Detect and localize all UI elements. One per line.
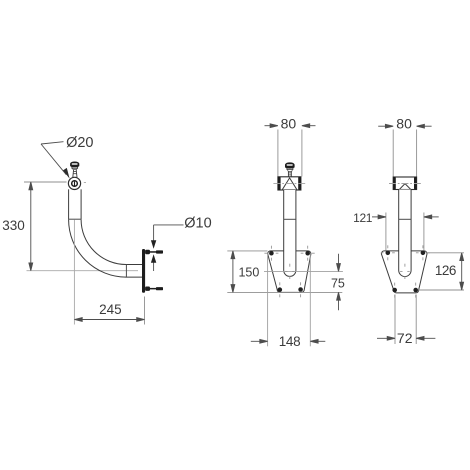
bolt head (dark band with slot) [70, 162, 79, 168]
top ring outer circle (Ø20) [68, 177, 80, 189]
clamp bolt head (dark band with slot) [285, 162, 295, 168]
svg-text:Ø10: Ø10 [184, 215, 211, 231]
label Ø10 leader arrowhead (down) [151, 240, 156, 249]
dimension 121 extension lines [385, 213, 387, 251]
dimension 150 dimension line with arrows [231, 251, 235, 293]
horizontal tube joint line [125, 265, 127, 278]
dimension 72 arrows [377, 336, 435, 340]
label Ø10 leader [154, 225, 184, 243]
dimension 80 (right) arrows [378, 124, 431, 128]
clamp block centerline (right view) [389, 183, 421, 185]
dimension 75 down arrow [337, 254, 341, 310]
dimension 126 dimension line with arrows [460, 253, 464, 290]
label Ø20 leader arrowhead [63, 168, 70, 179]
top ring inner ring [72, 181, 78, 187]
tube (middle view) over plate [284, 190, 296, 276]
wall plate (right view, trapezoid) [381, 251, 427, 293]
clamp block right end bar [414, 177, 417, 190]
dimension 148 arrows [251, 339, 325, 343]
bolt on top of ring: threaded shaft [73, 170, 77, 178]
label Ø20 leader [41, 142, 66, 175]
vertical tube wall left [68, 189, 70, 219]
svg-text:75: 75 [331, 277, 345, 291]
hole top-left [269, 251, 274, 256]
clamp block right end bar [298, 177, 301, 190]
tube joint line [69, 218, 82, 220]
hole top-left (right view) [386, 251, 391, 256]
svg-text:126: 126 [435, 263, 456, 278]
svg-text:80: 80 [396, 116, 412, 132]
dimension 330 dimension line with arrows [29, 182, 33, 271]
hole bottom-right (right view) [413, 288, 418, 293]
plate holes (middle view) with center ticks [264, 246, 314, 298]
dimension 80 (middle) extension lines [277, 130, 279, 177]
clamp block (right view) [393, 177, 416, 190]
svg-text:Ø20: Ø20 [66, 135, 93, 151]
dimension 80 (middle) arrows [265, 124, 316, 128]
dimension 121 arrows [372, 215, 439, 219]
horizontal tube bottom wall [126, 276, 142, 278]
dimension 80 (right) extension lines [392, 130, 394, 177]
horizontal tube top wall [126, 264, 142, 266]
dimension 330 top extension line [24, 181, 67, 183]
plate holes (right view) with center ticks [381, 245, 430, 297]
dimension 245 left extension line (tube centerline) [73, 220, 75, 325]
svg-text:150: 150 [238, 266, 259, 280]
svg-text:121: 121 [353, 211, 373, 225]
top wall bolt (side view) [145, 250, 163, 254]
hole bottom-left (right view) [392, 288, 397, 293]
centerline tick right of ring [84, 182, 86, 184]
dimension 126 bottom extension line [418, 289, 464, 291]
dimension 150/75 bottom extension line [227, 291, 342, 293]
dimension 245 dimension line with arrows [74, 318, 144, 322]
bend inner curve [81, 220, 126, 265]
tube joint line (middle view) [284, 218, 296, 220]
dimension 148 extension lines [267, 254, 269, 347]
clamp bolt neck collar [287, 167, 293, 170]
clamp V notch [282, 178, 297, 190]
Ø10 opposing arrow (up from below) [153, 258, 155, 271]
tube (right view) over plate [399, 190, 411, 277]
bottom wall bolt (side view) [145, 287, 163, 291]
hole top-right [305, 251, 310, 256]
hole top-right (right view) [421, 251, 426, 256]
bolt neck collar [72, 166, 78, 169]
clamp block centerline [273, 183, 305, 185]
dimension 150 top extension line [227, 250, 267, 252]
svg-text:148: 148 [279, 334, 301, 349]
dimension 126 top extension line [426, 252, 464, 254]
clamp block (middle view) [278, 177, 301, 190]
wall plate (middle view, trapezoid) [268, 251, 311, 293]
svg-text:330: 330 [2, 218, 25, 233]
svg-text:72: 72 [397, 330, 413, 346]
clamp V notch (right view) [399, 184, 411, 190]
svg-text:80: 80 [281, 116, 297, 132]
tube joint line (right view) [399, 218, 411, 220]
clamp bolt (middle view) threaded shaft [288, 171, 291, 177]
clamp block left end bar [278, 177, 281, 190]
hole bottom-right [298, 287, 303, 292]
hole bottom-left [278, 287, 283, 292]
dimension 330 bottom extension line / tube centerline [27, 270, 139, 272]
wall plate bar (side view) [142, 249, 145, 293]
svg-text:245: 245 [99, 302, 122, 317]
dimension 72 extension lines [394, 295, 396, 345]
vertical tube wall right [80, 189, 82, 219]
dimension 245 right extension line [144, 297, 146, 325]
bend outer curve [69, 220, 127, 278]
clamp block left end bar [393, 177, 396, 190]
dimension 75 top extension line (tube centerline) [264, 270, 343, 272]
